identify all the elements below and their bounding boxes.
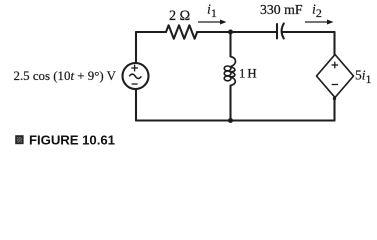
svg-text:2.5 cos (10t + 9°) V: 2.5 cos (10t + 9°) V	[14, 69, 117, 83]
svg-text:1 H: 1 H	[239, 67, 256, 81]
svg-text:2 Ω: 2 Ω	[169, 8, 190, 24]
svg-text:i2: i2	[312, 3, 322, 20]
svg-text:330 mF: 330 mF	[260, 2, 303, 17]
svg-text:FIGURE 10.61: FIGURE 10.61	[29, 133, 115, 148]
svg-text:i1: i1	[207, 3, 217, 20]
